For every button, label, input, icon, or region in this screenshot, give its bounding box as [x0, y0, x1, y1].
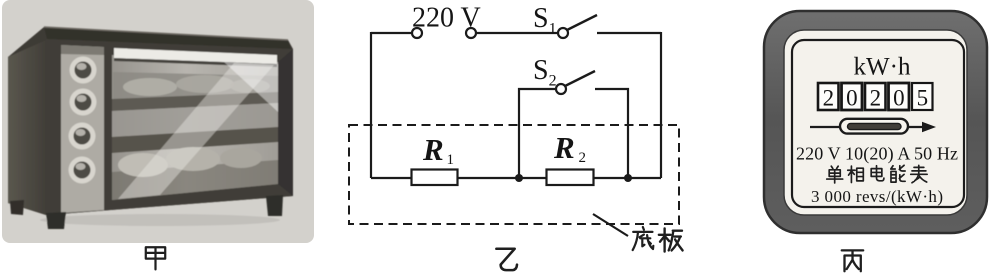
energy meter outer frame	[764, 11, 987, 233]
svg-text:0: 0	[893, 86, 905, 111]
svg-text:2: 2	[870, 86, 882, 111]
bottom wire	[371, 177, 661, 179]
rotating disc (edge view)	[840, 119, 908, 134]
floor shadow	[40, 214, 280, 226]
wire to switch S1	[476, 32, 558, 34]
svg-text:0: 0	[846, 86, 858, 111]
label yi	[496, 249, 517, 270]
top vent slot	[114, 48, 277, 64]
meter inner panel border	[792, 40, 964, 207]
switch S2	[556, 71, 595, 94]
wire S2 left branch	[519, 89, 556, 178]
lower glass band	[112, 160, 278, 200]
wire left vertical	[370, 32, 372, 178]
knob 2	[70, 89, 97, 116]
svg-text:S2: S2	[533, 55, 557, 90]
resistor R1	[412, 170, 458, 186]
label xiang (phase)	[848, 166, 864, 182]
door right edge	[278, 49, 293, 196]
junction node right	[624, 174, 632, 182]
foot left front	[46, 212, 66, 229]
shelf 2	[112, 127, 278, 153]
pointer line to base-plate label	[593, 214, 628, 236]
wire S1 to right	[597, 32, 661, 34]
label dian (electric)	[871, 166, 884, 181]
knob 4	[69, 157, 96, 184]
front face	[46, 39, 293, 215]
supply terminal left	[412, 28, 422, 38]
svg-text:3 000 revs/(kW·h): 3 000 revs/(kW·h)	[811, 187, 943, 206]
svg-text:2: 2	[579, 150, 587, 166]
svg-text:kW·h: kW·h	[854, 54, 911, 81]
label ban (plate)	[659, 228, 683, 251]
body silhouette	[8, 27, 293, 215]
disc axis line	[810, 126, 926, 128]
control strip	[61, 45, 104, 213]
shelf 1	[112, 92, 278, 111]
svg-text:2: 2	[823, 86, 835, 111]
upper food tray	[113, 72, 278, 100]
label di (bottom)	[633, 227, 654, 250]
foot right	[266, 195, 283, 216]
reflection top right patch	[224, 62, 278, 112]
label jia	[146, 247, 165, 269]
svg-text:R: R	[553, 130, 575, 165]
dashed base-plate box	[349, 125, 679, 224]
photo background	[2, 0, 314, 243]
svg-text:5: 5	[917, 86, 929, 111]
supply terminal right	[466, 28, 476, 38]
reflection streak	[118, 63, 274, 199]
circuit: left wire	[371, 32, 417, 34]
knob 3	[69, 123, 96, 150]
lower food	[118, 153, 168, 177]
svg-text:1: 1	[447, 152, 455, 168]
switch S1	[558, 15, 597, 38]
svg-text:S1: S1	[533, 3, 557, 38]
junction node left	[515, 174, 523, 182]
wire S2 right branch	[595, 89, 628, 178]
wire right vertical	[660, 32, 662, 178]
label neng (energy)	[891, 165, 905, 182]
disc arrow	[922, 122, 936, 132]
knob 1	[70, 57, 97, 84]
meter frame inner white field	[784, 30, 967, 215]
label bing	[842, 250, 863, 271]
top highlight edge	[44, 27, 288, 40]
resistor R2	[547, 170, 594, 186]
mid glass shade	[112, 103, 278, 138]
left side face	[8, 40, 46, 215]
toaster oven photo	[8, 27, 293, 229]
svg-text:220 V 10(20) A 50 Hz: 220 V 10(20) A 50 Hz	[796, 144, 958, 165]
foot left back	[10, 200, 24, 215]
label biao (meter)	[911, 165, 927, 182]
top face	[44, 27, 291, 49]
digit register frame	[818, 83, 933, 110]
door glass	[112, 55, 278, 200]
label dan (single)	[827, 166, 843, 183]
svg-text:R: R	[422, 132, 444, 167]
